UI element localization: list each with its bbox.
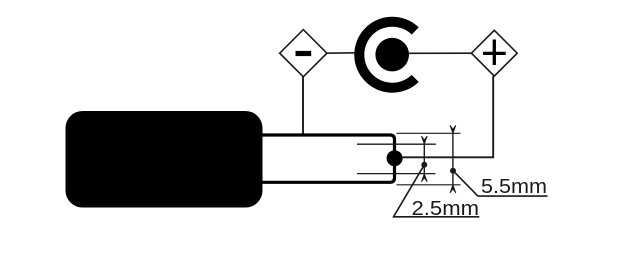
- arrow 5.5 bottom (points up): [450, 185, 456, 193]
- wire from minus diamond down to barrel top: [302, 77, 304, 135]
- minus sign: [296, 51, 312, 56]
- svg-text:2.5mm: 2.5mm: [412, 198, 480, 220]
- svg-text:5.5mm: 5.5mm: [481, 176, 547, 198]
- wire from plus diamond down and left to center pin line: [395, 76, 494, 157]
- wire minus diamond to C symbol: [327, 52, 357, 54]
- arrow 5.5 top (points down): [450, 126, 456, 134]
- barrel outline (sleeve): [263, 135, 395, 182]
- C ring of polarity symbol: [354, 17, 418, 93]
- leader dot 5.5: [450, 168, 456, 174]
- arrow 2.5 top (points down): [422, 136, 428, 144]
- wire dot to plus diamond: [408, 52, 472, 54]
- arrow 2.5 bottom (points up): [422, 174, 428, 182]
- plug body (black rounded rectangle): [66, 111, 263, 208]
- minus diamond: [280, 30, 327, 77]
- dimension line 2.5mm: [423, 144, 425, 174]
- plus diamond: [471, 30, 517, 76]
- barrel tip dot: [387, 150, 403, 166]
- leader line 2.5mm: [394, 165, 480, 217]
- extension line 5.5 bottom: [397, 184, 461, 186]
- pin bottom line: [357, 173, 436, 175]
- dimension line 5.5mm: [452, 133, 454, 185]
- pin top line: [357, 143, 436, 145]
- leader line 5.5mm: [453, 171, 548, 196]
- plus sign: [483, 40, 506, 66]
- extension line 5.5 top: [397, 132, 461, 134]
- leader dot 2.5: [421, 162, 427, 168]
- center dot of polarity symbol: [375, 38, 409, 72]
